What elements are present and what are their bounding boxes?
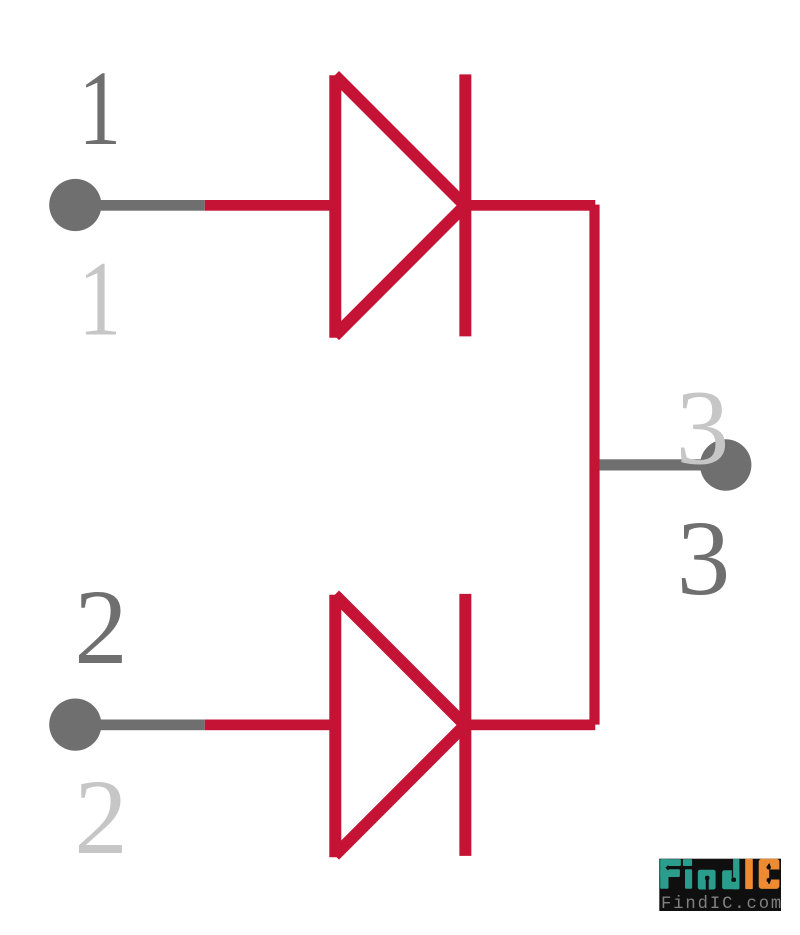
diode D2 anode triangle (335, 595, 465, 858)
pin 1 terminal dot (49, 179, 101, 231)
wire pin1 to diode D1 anode (205, 200, 336, 211)
pin 2 lead wire (75, 720, 205, 731)
diode D2 cathode bar (459, 594, 471, 856)
pin 3 terminal dot (700, 439, 751, 490)
svg-text:2: 2 (74, 569, 128, 687)
logo letter I (745, 859, 753, 889)
diode D1 cathode bar (459, 74, 471, 336)
pin 3 lead wire (600, 459, 727, 470)
svg-text:3: 3 (676, 370, 730, 488)
logo letter C (759, 859, 780, 889)
logo letter n (698, 870, 716, 890)
pin 1 lead wire (75, 200, 205, 211)
logo letter d (722, 859, 739, 889)
wire D2 cathode to common node (465, 720, 595, 731)
FindIC logo background (659, 859, 781, 911)
logo letter F (660, 859, 681, 889)
svg-text:1: 1 (78, 49, 121, 167)
logo letter i (683, 859, 692, 889)
wire common cathode vertical bus (589, 205, 599, 725)
svg-text:FindIC.com: FindIC.com (661, 895, 783, 914)
svg-text:3: 3 (677, 500, 731, 618)
wire D1 cathode to common node (465, 200, 595, 211)
svg-text:2: 2 (74, 759, 128, 877)
diode D1 anode triangle (335, 75, 465, 338)
wire pin2 to diode D2 anode (205, 720, 336, 731)
svg-text:1: 1 (78, 240, 121, 358)
pin 2 terminal dot (49, 699, 101, 751)
